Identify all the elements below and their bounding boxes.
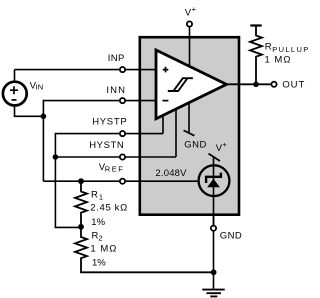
svg-text:1 MΩ: 1 MΩ — [90, 244, 117, 255]
device package box U1 — [140, 37, 239, 215]
svg-text:R: R — [265, 41, 272, 52]
svg-text:GND: GND — [220, 230, 242, 241]
svg-text:1: 1 — [99, 192, 103, 201]
svg-text:OUT: OUT — [282, 80, 305, 91]
pin HYSTN — [120, 154, 125, 159]
VIN plus mark — [10, 86, 18, 94]
wire VIN- to node — [15, 105, 44, 116]
node: VIN- junction — [41, 114, 47, 120]
wire VREF line — [43, 180, 199, 182]
comparator GND lead — [188, 103, 190, 133]
wire HYSTP — [55, 134, 163, 228]
svg-text:1 MΩ: 1 MΩ — [265, 54, 292, 65]
wire HYSTP internal — [162, 115, 164, 134]
reference V+ tick — [209, 154, 221, 161]
pin VREF — [120, 179, 125, 184]
pin INN — [120, 98, 125, 103]
OUT terminal — [271, 82, 276, 87]
source VIN — [3, 82, 27, 106]
pullup rail bar — [250, 24, 261, 26]
GND terminal — [211, 226, 216, 231]
plus input mark — [163, 67, 169, 73]
svg-text:IN: IN — [35, 82, 43, 91]
comparator triangle — [156, 50, 227, 119]
node: out junction — [253, 82, 259, 88]
wire HYSTN internal — [175, 109, 177, 158]
node: ground junction — [211, 269, 217, 275]
wire GND terminal to ground — [213, 216, 215, 289]
wire R2 bottom to ground node — [81, 263, 214, 273]
wire INN / VREF net — [43, 101, 156, 182]
GND lead tick — [184, 130, 195, 135]
resistor R1 — [75, 181, 87, 227]
reference diode lead — [213, 157, 215, 225]
svg-text:1%: 1% — [92, 257, 106, 268]
zener cathode bar — [206, 173, 221, 183]
node: HYSTN junction — [53, 154, 59, 160]
node: R1/R2 junction — [78, 224, 84, 230]
node: R1 top junction — [78, 178, 84, 184]
wire VIN+ to INP — [15, 70, 157, 82]
svg-text:2.45 kΩ: 2.45 kΩ — [90, 203, 128, 214]
svg-text:2.048V: 2.048V — [155, 168, 187, 179]
svg-text:HYSTN: HYSTN — [89, 140, 124, 151]
ground symbol — [202, 290, 224, 297]
svg-text:1%: 1% — [91, 217, 105, 228]
svg-text:INN: INN — [106, 85, 126, 96]
svg-text:+: + — [192, 5, 197, 14]
wire HYSTN — [55, 156, 176, 158]
svg-text:REF: REF — [105, 165, 125, 174]
wire V+ to comparator — [189, 27, 191, 67]
V+ terminal — [187, 21, 192, 26]
svg-text:PULLUP: PULLUP — [272, 45, 309, 54]
minus input mark — [162, 100, 168, 102]
svg-text:+: + — [222, 140, 227, 149]
pin INP — [120, 67, 125, 72]
reference diode circle D1 — [199, 165, 230, 196]
pin HYSTP — [120, 131, 125, 136]
svg-text:2: 2 — [98, 234, 102, 243]
svg-text:HYSTP: HYSTP — [92, 116, 127, 127]
zener anode triangle — [207, 179, 220, 188]
hysteresis symbol — [168, 78, 193, 91]
resistor RPULLUP — [250, 26, 262, 85]
svg-text:GND: GND — [184, 139, 207, 150]
VIN minus mark — [12, 99, 17, 101]
svg-text:INP: INP — [108, 53, 125, 64]
resistor R2 — [75, 227, 87, 263]
svg-text:R: R — [91, 189, 98, 200]
wire OUT — [227, 83, 272, 85]
